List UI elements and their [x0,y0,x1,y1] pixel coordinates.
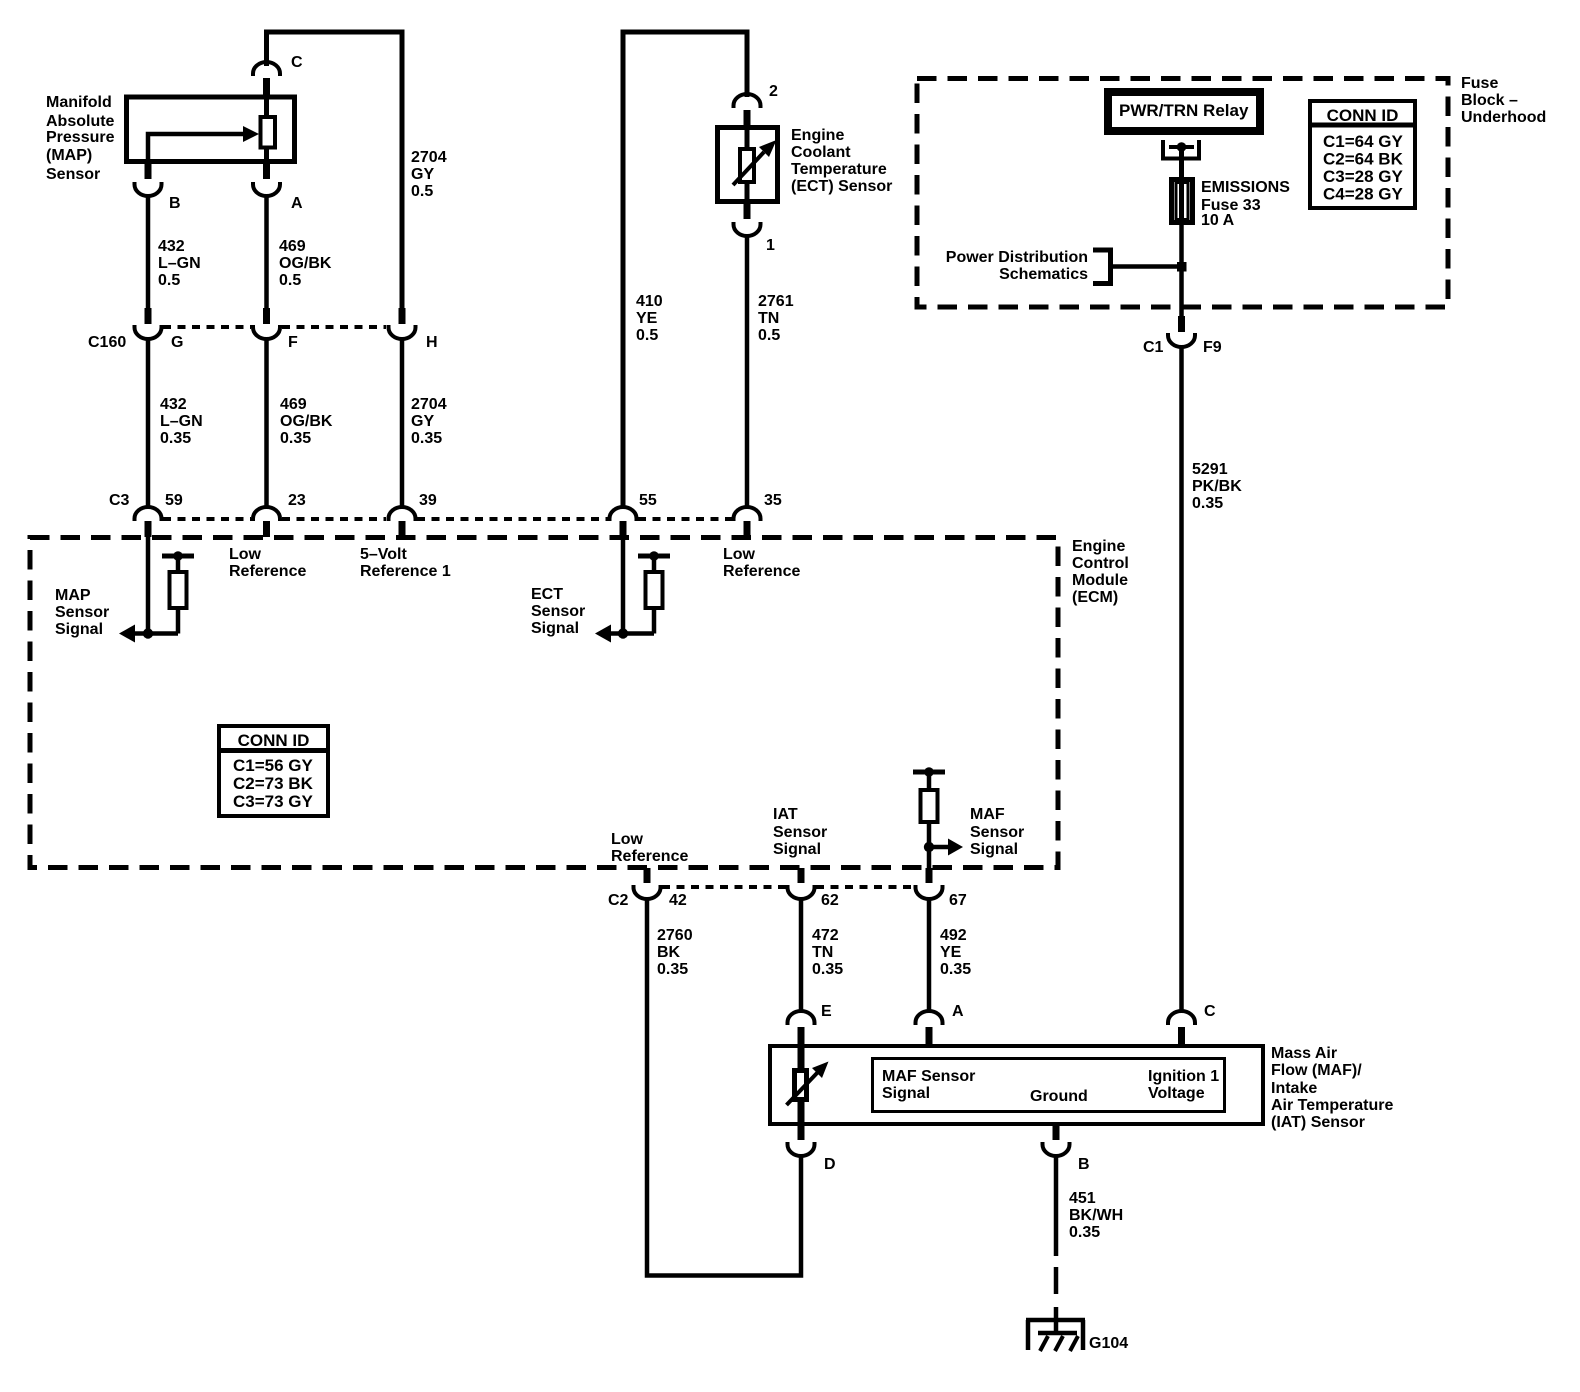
label F9 [1203,339,1222,356]
wire 5291 PK/BK 0.35 [1179,346,1184,1013]
svg-text:TN: TN [812,944,833,961]
svg-text:1: 1 [766,237,775,254]
svg-text:(ECT) Sensor: (ECT) Sensor [791,178,892,195]
svg-text:Voltage: Voltage [1148,1085,1205,1102]
svg-text:5–Volt: 5–Volt [360,546,408,563]
connector C2 terminal 42 [634,868,661,899]
svg-text:A: A [291,195,303,212]
connector C2 terminal 67 [916,868,943,899]
pin label C [291,54,303,71]
svg-text:F9: F9 [1203,339,1222,356]
svg-text:L–GN: L–GN [160,413,203,430]
label Ignition 1 Voltage (box pin) [1148,1068,1219,1102]
label Low Reference (pin 35) [723,546,800,580]
svg-text:Signal: Signal [531,620,579,637]
svg-text:CONN ID: CONN ID [238,731,310,750]
label Manifold Absolute Pressure (MAP) Sensor [46,94,115,183]
ECT sensor signal arrow [595,625,654,643]
svg-text:0.5: 0.5 [758,327,780,344]
svg-text:Air Temperature: Air Temperature [1271,1097,1394,1114]
pin label H [426,334,438,351]
svg-text:Pressure: Pressure [46,129,115,146]
svg-text:C1=56 GY: C1=56 GY [233,756,314,775]
svg-text:GY: GY [411,413,434,430]
svg-text:59: 59 [165,492,183,509]
label 5291 PK/BK 0.35 [1192,461,1242,512]
pin label G [171,334,183,351]
pin label 35 [764,492,782,509]
pin label 2 [769,83,778,100]
connector B at MAP sensor [135,162,162,196]
svg-text:Power Distribution: Power Distribution [946,249,1088,266]
svg-text:G: G [171,334,183,351]
svg-text:Low: Low [723,546,756,563]
connector 2 at ECT sensor [734,94,761,126]
connector C at MAP sensor [253,62,280,96]
svg-text:Temperature: Temperature [791,161,887,178]
label Low Reference (pin 23) [229,546,306,580]
label MAP Sensor Signal [55,587,109,638]
label 492 YE 0.35 [940,927,971,978]
pin label D [824,1156,836,1173]
svg-text:0.35: 0.35 [1192,495,1223,512]
ground G104 [1026,1307,1085,1351]
svg-text:C3=73 GY: C3=73 GY [233,792,314,811]
svg-text:A: A [952,1003,964,1020]
pin label C [1204,1003,1216,1020]
svg-text:Sensor: Sensor [55,604,109,621]
label G104 [1089,1335,1128,1352]
svg-text:Block –: Block – [1461,92,1518,109]
pin label B [1078,1156,1090,1173]
wire 469 OG/BK 0.35 [264,338,269,509]
connector C2 terminal 62 [788,868,815,899]
pin label 39 [419,492,437,509]
svg-text:2704: 2704 [411,149,447,166]
svg-text:2760: 2760 [657,927,693,944]
svg-text:Module: Module [1072,572,1128,589]
pin label 62 [821,892,839,909]
svg-text:Signal: Signal [970,841,1018,858]
label C2 [608,892,629,909]
svg-text:OG/BK: OG/BK [280,413,333,430]
svg-text:492: 492 [940,927,967,944]
svg-text:0.35: 0.35 [280,430,311,447]
svg-text:Signal: Signal [882,1085,930,1102]
svg-text:Signal: Signal [773,841,821,858]
svg-text:Mass Air: Mass Air [1271,1045,1337,1062]
svg-text:H: H [426,334,438,351]
svg-text:B: B [1078,1156,1090,1173]
label 469 OG/BK 0.5 [279,238,332,289]
svg-text:E: E [821,1003,832,1020]
MAP pull-up resistor [162,551,194,633]
svg-text:0.5: 0.5 [279,272,301,289]
wire 492 YE 0.35 [927,898,932,1013]
svg-text:Sensor: Sensor [773,824,827,841]
svg-text:Signal: Signal [55,621,103,638]
svg-text:C160: C160 [88,334,126,351]
connector C3 terminal 35 [734,507,761,537]
svg-text:Schematics: Schematics [999,266,1088,283]
svg-text:10 A: 10 A [1201,212,1235,229]
connector C1 F9 [1168,316,1195,347]
pin label 42 [669,892,687,909]
svg-text:(MAP): (MAP) [46,147,92,164]
wire 451 BK/WH 0.35 [1054,1155,1059,1256]
svg-text:C2=73 BK: C2=73 BK [233,774,314,793]
MAF/IAT sensor outer box [770,1046,1263,1124]
svg-text:62: 62 [821,892,839,909]
svg-text:Control: Control [1072,555,1129,572]
connector C3 terminal 59 [135,507,162,537]
wire 432 L-GN 0.35 [146,338,151,509]
svg-text:MAF Sensor: MAF Sensor [882,1068,975,1085]
label 2761 TN 0.5 [758,293,794,344]
wire 2761 TN 0.5 [745,234,750,509]
junction at power distribution tap [1177,262,1187,272]
wire 432 L-GN 0.5 [146,194,151,309]
svg-text:MAF: MAF [970,806,1005,823]
pin label 67 [949,892,967,909]
svg-text:0.35: 0.35 [657,961,688,978]
svg-text:(IAT) Sensor: (IAT) Sensor [1271,1114,1365,1131]
svg-text:CONN ID: CONN ID [1327,106,1399,125]
label ECT Sensor Signal [531,586,585,637]
svg-text:Sensor: Sensor [970,824,1024,841]
ECT sensor top loop wire 410 [623,32,747,509]
svg-text:0.5: 0.5 [636,327,658,344]
svg-text:2704: 2704 [411,396,447,413]
svg-text:2: 2 [769,83,778,100]
svg-text:0.35: 0.35 [160,430,191,447]
svg-text:432: 432 [160,396,187,413]
label Fuse Block - Underhood [1461,75,1546,126]
label Engine Coolant Temperature (ECT) Sensor [791,127,892,195]
svg-text:Reference: Reference [611,848,688,865]
wire from relay to fuse [1179,147,1184,177]
svg-text:C2: C2 [608,892,629,909]
svg-text:2761: 2761 [758,293,794,310]
svg-text:42: 42 [669,892,687,909]
MAP signal wire inside ECM [146,537,151,634]
MAP sensor internal wiper arrow [148,126,259,164]
label C3 [109,492,130,509]
fuse EMISSIONS Fuse 33 10 A [1172,177,1193,225]
label 5-Volt Reference 1 [360,546,451,580]
svg-text:Ground: Ground [1030,1088,1088,1105]
svg-text:EMISSIONS: EMISSIONS [1201,179,1290,196]
svg-text:Sensor: Sensor [531,603,585,620]
svg-text:0.35: 0.35 [411,430,442,447]
svg-text:Manifold: Manifold [46,94,112,111]
svg-text:469: 469 [280,396,307,413]
wire from bracket to main [1113,264,1182,269]
wire 469 OG/BK 0.5 [264,194,269,309]
svg-text:F: F [288,334,298,351]
svg-text:Reference: Reference [229,563,306,580]
svg-text:Ignition 1: Ignition 1 [1148,1068,1219,1085]
svg-text:472: 472 [812,927,839,944]
label Engine Control Module (ECM) [1072,538,1129,606]
svg-text:Fuse: Fuse [1461,75,1498,92]
MAF pull-up resistor inside ECM [913,767,945,870]
wire 2704 GY 0.5 top loop from MAP pin C to H [267,32,403,308]
label 432 L-GN 0.35 [160,396,203,447]
svg-text:C3: C3 [109,492,130,509]
svg-text:C: C [1204,1003,1216,1020]
svg-text:IAT: IAT [773,806,798,823]
svg-text:D: D [824,1156,836,1173]
connector E at MAF/IAT sensor [788,1011,815,1046]
label 410 YE 0.5 [636,293,663,344]
pin label F [288,334,298,351]
pin label 59 [165,492,183,509]
connector C3 terminal 23 [253,507,280,537]
label 2704 GY 0.5 [411,149,447,200]
wire 2704 GY 0.35 [400,338,405,509]
connector A at MAF/IAT sensor [916,1011,943,1046]
svg-text:55: 55 [639,492,657,509]
label 451 BK/WH 0.35 [1069,1190,1123,1241]
pin label 1 [766,237,775,254]
svg-text:Engine: Engine [791,127,844,144]
ECM CONN ID table [219,726,328,816]
label Power Distribution Schematics [946,249,1088,283]
fuse block CONN ID table [1310,101,1415,208]
fuse block underhood dashed box [917,79,1448,308]
pin label 23 [288,492,306,509]
label 472 TN 0.35 [812,927,843,978]
svg-text:OG/BK: OG/BK [279,255,332,272]
svg-text:TN: TN [758,310,779,327]
svg-text:C3=28 GY: C3=28 GY [1323,167,1404,186]
svg-text:B: B [169,195,181,212]
svg-text:67: 67 [949,892,967,909]
label Mass Air Flow (MAF)/ Intake Air Temperature (IAT) Sensor [1271,1045,1394,1131]
svg-text:Reference: Reference [723,563,800,580]
wire 2760 BK 0.35 loop [647,898,801,1276]
svg-text:ECT: ECT [531,586,563,603]
svg-text:PWR/TRN Relay: PWR/TRN Relay [1119,101,1249,120]
svg-text:0.5: 0.5 [411,183,433,200]
label IAT Sensor Signal [773,806,827,858]
svg-text:0.5: 0.5 [158,272,180,289]
svg-text:Low: Low [229,546,262,563]
IAT thermistor inside box [787,1046,829,1126]
MAP sensor internal resistor [261,95,276,164]
svg-text:0.35: 0.35 [812,961,843,978]
ECM dashed box [30,538,1058,868]
wire below fuse [1179,225,1184,317]
dashed wire to ground [1054,1267,1059,1294]
label C1 [1143,339,1164,356]
connector C160 terminal G [135,308,162,339]
C2 row dashed line [662,885,914,889]
power distribution bracket [1093,250,1111,284]
svg-text:Low: Low [611,831,644,848]
svg-text:Intake: Intake [1271,1080,1317,1097]
MAP sensor signal arrow [119,625,178,643]
connector C3 terminal 55 [610,507,637,537]
svg-text:Sensor: Sensor [46,166,100,183]
svg-text:451: 451 [1069,1190,1096,1207]
svg-text:432: 432 [158,238,185,255]
pin label B [169,195,181,212]
svg-text:Coolant: Coolant [791,144,851,161]
label MAF Sensor Signal (box pin) [882,1068,975,1102]
svg-text:39: 39 [419,492,437,509]
svg-text:GY: GY [411,166,434,183]
ECT pull-up resistor [638,551,670,633]
svg-text:Underhood: Underhood [1461,109,1546,126]
connector D at MAF/IAT sensor [788,1124,815,1156]
label MAF Sensor Signal [970,806,1024,858]
label 2760 BK 0.35 [657,927,693,978]
C160 row dashed line [163,325,386,329]
svg-text:YE: YE [636,310,658,327]
svg-text:BK: BK [657,944,681,961]
connector C160 terminal F [253,308,280,339]
connector A at MAP sensor [253,162,280,196]
connector C160 terminal H [389,308,416,339]
svg-text:G104: G104 [1089,1335,1128,1352]
wire 472 TN 0.35 [799,898,804,1013]
label 469 OG/BK 0.35 [280,396,333,447]
label EMISSIONS Fuse 33 10 A [1201,179,1290,229]
svg-text:5291: 5291 [1192,461,1228,478]
connector 1 at ECT sensor [734,202,761,236]
label 2704 GY 0.35 [411,396,447,447]
connector C at MAF/IAT sensor [1168,1011,1195,1046]
label C160 [88,334,126,351]
svg-text:469: 469 [279,238,306,255]
svg-text:C: C [291,54,303,71]
svg-text:PK/BK: PK/BK [1192,478,1242,495]
svg-text:C1=64 GY: C1=64 GY [1323,132,1404,151]
connector C3 terminal 39 [389,507,416,537]
svg-text:C4=28 GY: C4=28 GY [1323,185,1404,204]
svg-text:Reference 1: Reference 1 [360,563,451,580]
pin label 55 [639,492,657,509]
svg-text:Engine: Engine [1072,538,1125,555]
MAP sensor box [127,97,295,162]
svg-text:BK/WH: BK/WH [1069,1207,1123,1224]
svg-text:C2=64 BK: C2=64 BK [1323,150,1404,169]
pin label A [291,195,303,212]
ECT sensor thermistor [733,127,777,202]
label 432 L-GN 0.5 [158,238,201,289]
svg-text:23: 23 [288,492,306,509]
C3 row dashed line [163,517,732,521]
pin label A [952,1003,964,1020]
PWR/TRN Relay box [1104,88,1264,135]
label Low Reference (C2) [611,831,688,865]
MAF sensor signal arrow [924,839,963,856]
svg-text:0.35: 0.35 [1069,1224,1100,1241]
svg-text:410: 410 [636,293,663,310]
pin label E [821,1003,832,1020]
ECT signal wire inside ECM [621,537,626,634]
svg-text:Flow (MAF)/: Flow (MAF)/ [1271,1062,1362,1079]
svg-text:YE: YE [940,944,962,961]
MAF/IAT sensor inner box [873,1059,1225,1112]
label Ground (box pin) [1030,1088,1088,1105]
svg-text:C1: C1 [1143,339,1164,356]
svg-text:MAP: MAP [55,587,91,604]
ECT sensor box [718,128,778,202]
svg-text:(ECM): (ECM) [1072,589,1118,606]
svg-text:0.35: 0.35 [940,961,971,978]
svg-text:35: 35 [764,492,782,509]
relay pin bracket [1163,140,1199,159]
svg-text:L–GN: L–GN [158,255,201,272]
connector B at MAF/IAT sensor [1043,1124,1070,1156]
svg-text:Absolute: Absolute [46,113,115,130]
